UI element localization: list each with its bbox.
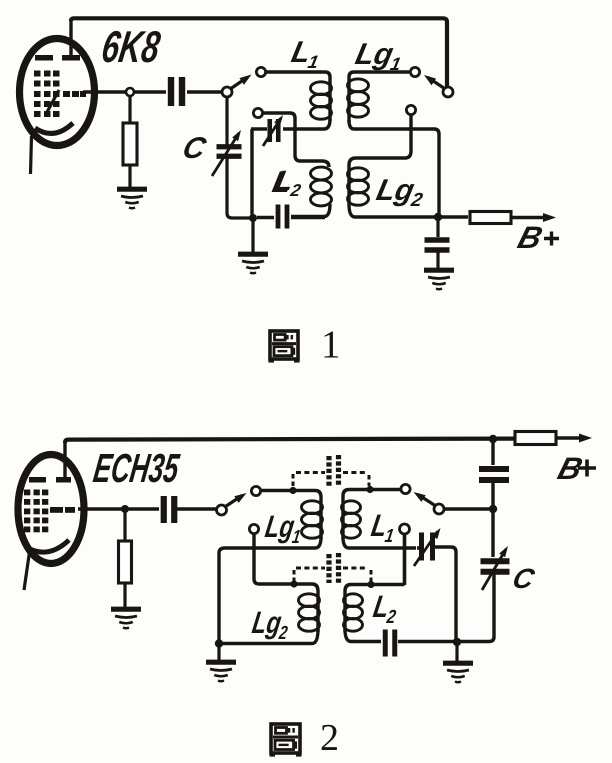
svg-text:L1: L1	[288, 36, 324, 72]
svg-text:Lg2: Lg2	[373, 174, 428, 211]
svg-text:Lg1: Lg1	[352, 38, 406, 74]
svg-text:B: B	[514, 220, 547, 255]
svg-text:2: 2	[320, 717, 339, 759]
svg-text:Lg1: Lg1	[262, 509, 304, 548]
svg-text:ECH35: ECH35	[91, 447, 183, 492]
svg-text:L2: L2	[370, 589, 401, 628]
svg-text:1: 1	[321, 323, 341, 366]
svg-text:6K8: 6K8	[98, 23, 163, 72]
svg-text:C: C	[179, 131, 210, 164]
svg-text:L1: L1	[368, 508, 398, 547]
svg-text:C: C	[509, 563, 538, 595]
svg-text:Lg2: Lg2	[249, 605, 292, 644]
